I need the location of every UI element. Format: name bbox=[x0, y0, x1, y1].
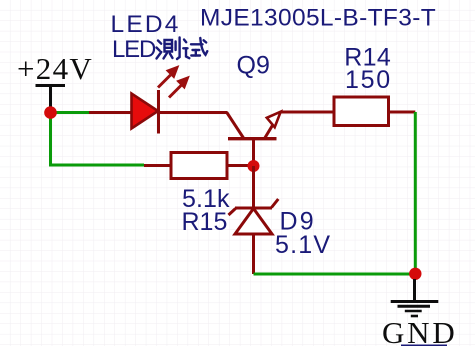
label 测 glyph bbox=[157, 38, 180, 60]
wire zener anode to GND bbox=[254, 273, 416, 276]
junction dot base node bbox=[248, 160, 260, 172]
svg-text:LED4: LED4 bbox=[111, 11, 181, 38]
zener D9 left hook bbox=[229, 209, 236, 216]
zener D9 triangle bbox=[235, 209, 272, 235]
svg-text:LED: LED bbox=[112, 36, 156, 63]
zener D9 top wire bbox=[252, 166, 255, 208]
resistor R14 right pin bbox=[389, 111, 416, 114]
svg-text:MJE13005L-B-TF3-T: MJE13005L-B-TF3-T bbox=[200, 5, 436, 32]
transistor Q9 emitter arrowhead bbox=[267, 112, 281, 128]
svg-text:150: 150 bbox=[345, 66, 392, 94]
zener D9 right hook bbox=[272, 199, 279, 208]
ground symbol stem bbox=[413, 279, 416, 300]
zener D9 cathode bar bbox=[235, 207, 272, 210]
resistor R15 body bbox=[171, 153, 227, 179]
resistor R15 right pin bbox=[227, 164, 254, 167]
svg-text:5.1V: 5.1V bbox=[275, 231, 331, 259]
transistor Q9 base bar bbox=[228, 137, 277, 140]
wire net +24V top bbox=[51, 111, 91, 114]
svg-text:R15: R15 bbox=[182, 208, 228, 236]
ground symbol bar 2 bbox=[398, 305, 431, 308]
LED light arrow 2 bbox=[169, 77, 189, 98]
transistor Q9 collector diagonal bbox=[227, 112, 244, 138]
svg-text:Q9: Q9 bbox=[237, 52, 270, 80]
wire net +24V left drop bbox=[51, 113, 145, 166]
LED light arrow 1 bbox=[158, 66, 179, 88]
LED D anode pin bbox=[89, 111, 132, 114]
ground symbol bar 4 bbox=[411, 315, 418, 318]
resistor R15 left pin bbox=[144, 164, 171, 167]
junction dot GND node bbox=[409, 268, 421, 280]
power port +24V bbox=[36, 86, 66, 109]
junction dot at +24V bbox=[44, 106, 57, 119]
ground symbol bar 3 bbox=[405, 310, 422, 313]
wire R14 down to GND bbox=[414, 112, 417, 274]
svg-text:+24V: +24V bbox=[17, 51, 93, 86]
svg-text:GND: GND bbox=[382, 315, 458, 346]
label 试 glyph bbox=[183, 38, 207, 58]
resistor R14 body bbox=[334, 97, 389, 126]
wire LED cathode to transistor collector bbox=[159, 111, 227, 114]
transistor Q9 emitter diagonal bbox=[265, 125, 274, 139]
ground symbol bar 1 bbox=[391, 300, 439, 303]
LED4 cathode bar bbox=[157, 90, 160, 134]
LED4 triangle bbox=[132, 94, 159, 129]
wire emitter to R14 bbox=[281, 111, 334, 114]
cut-off text at bottom edge bbox=[401, 345, 447, 346]
zener D9 bottom wire bbox=[252, 234, 255, 274]
transistor base vertical wire bbox=[252, 139, 255, 166]
